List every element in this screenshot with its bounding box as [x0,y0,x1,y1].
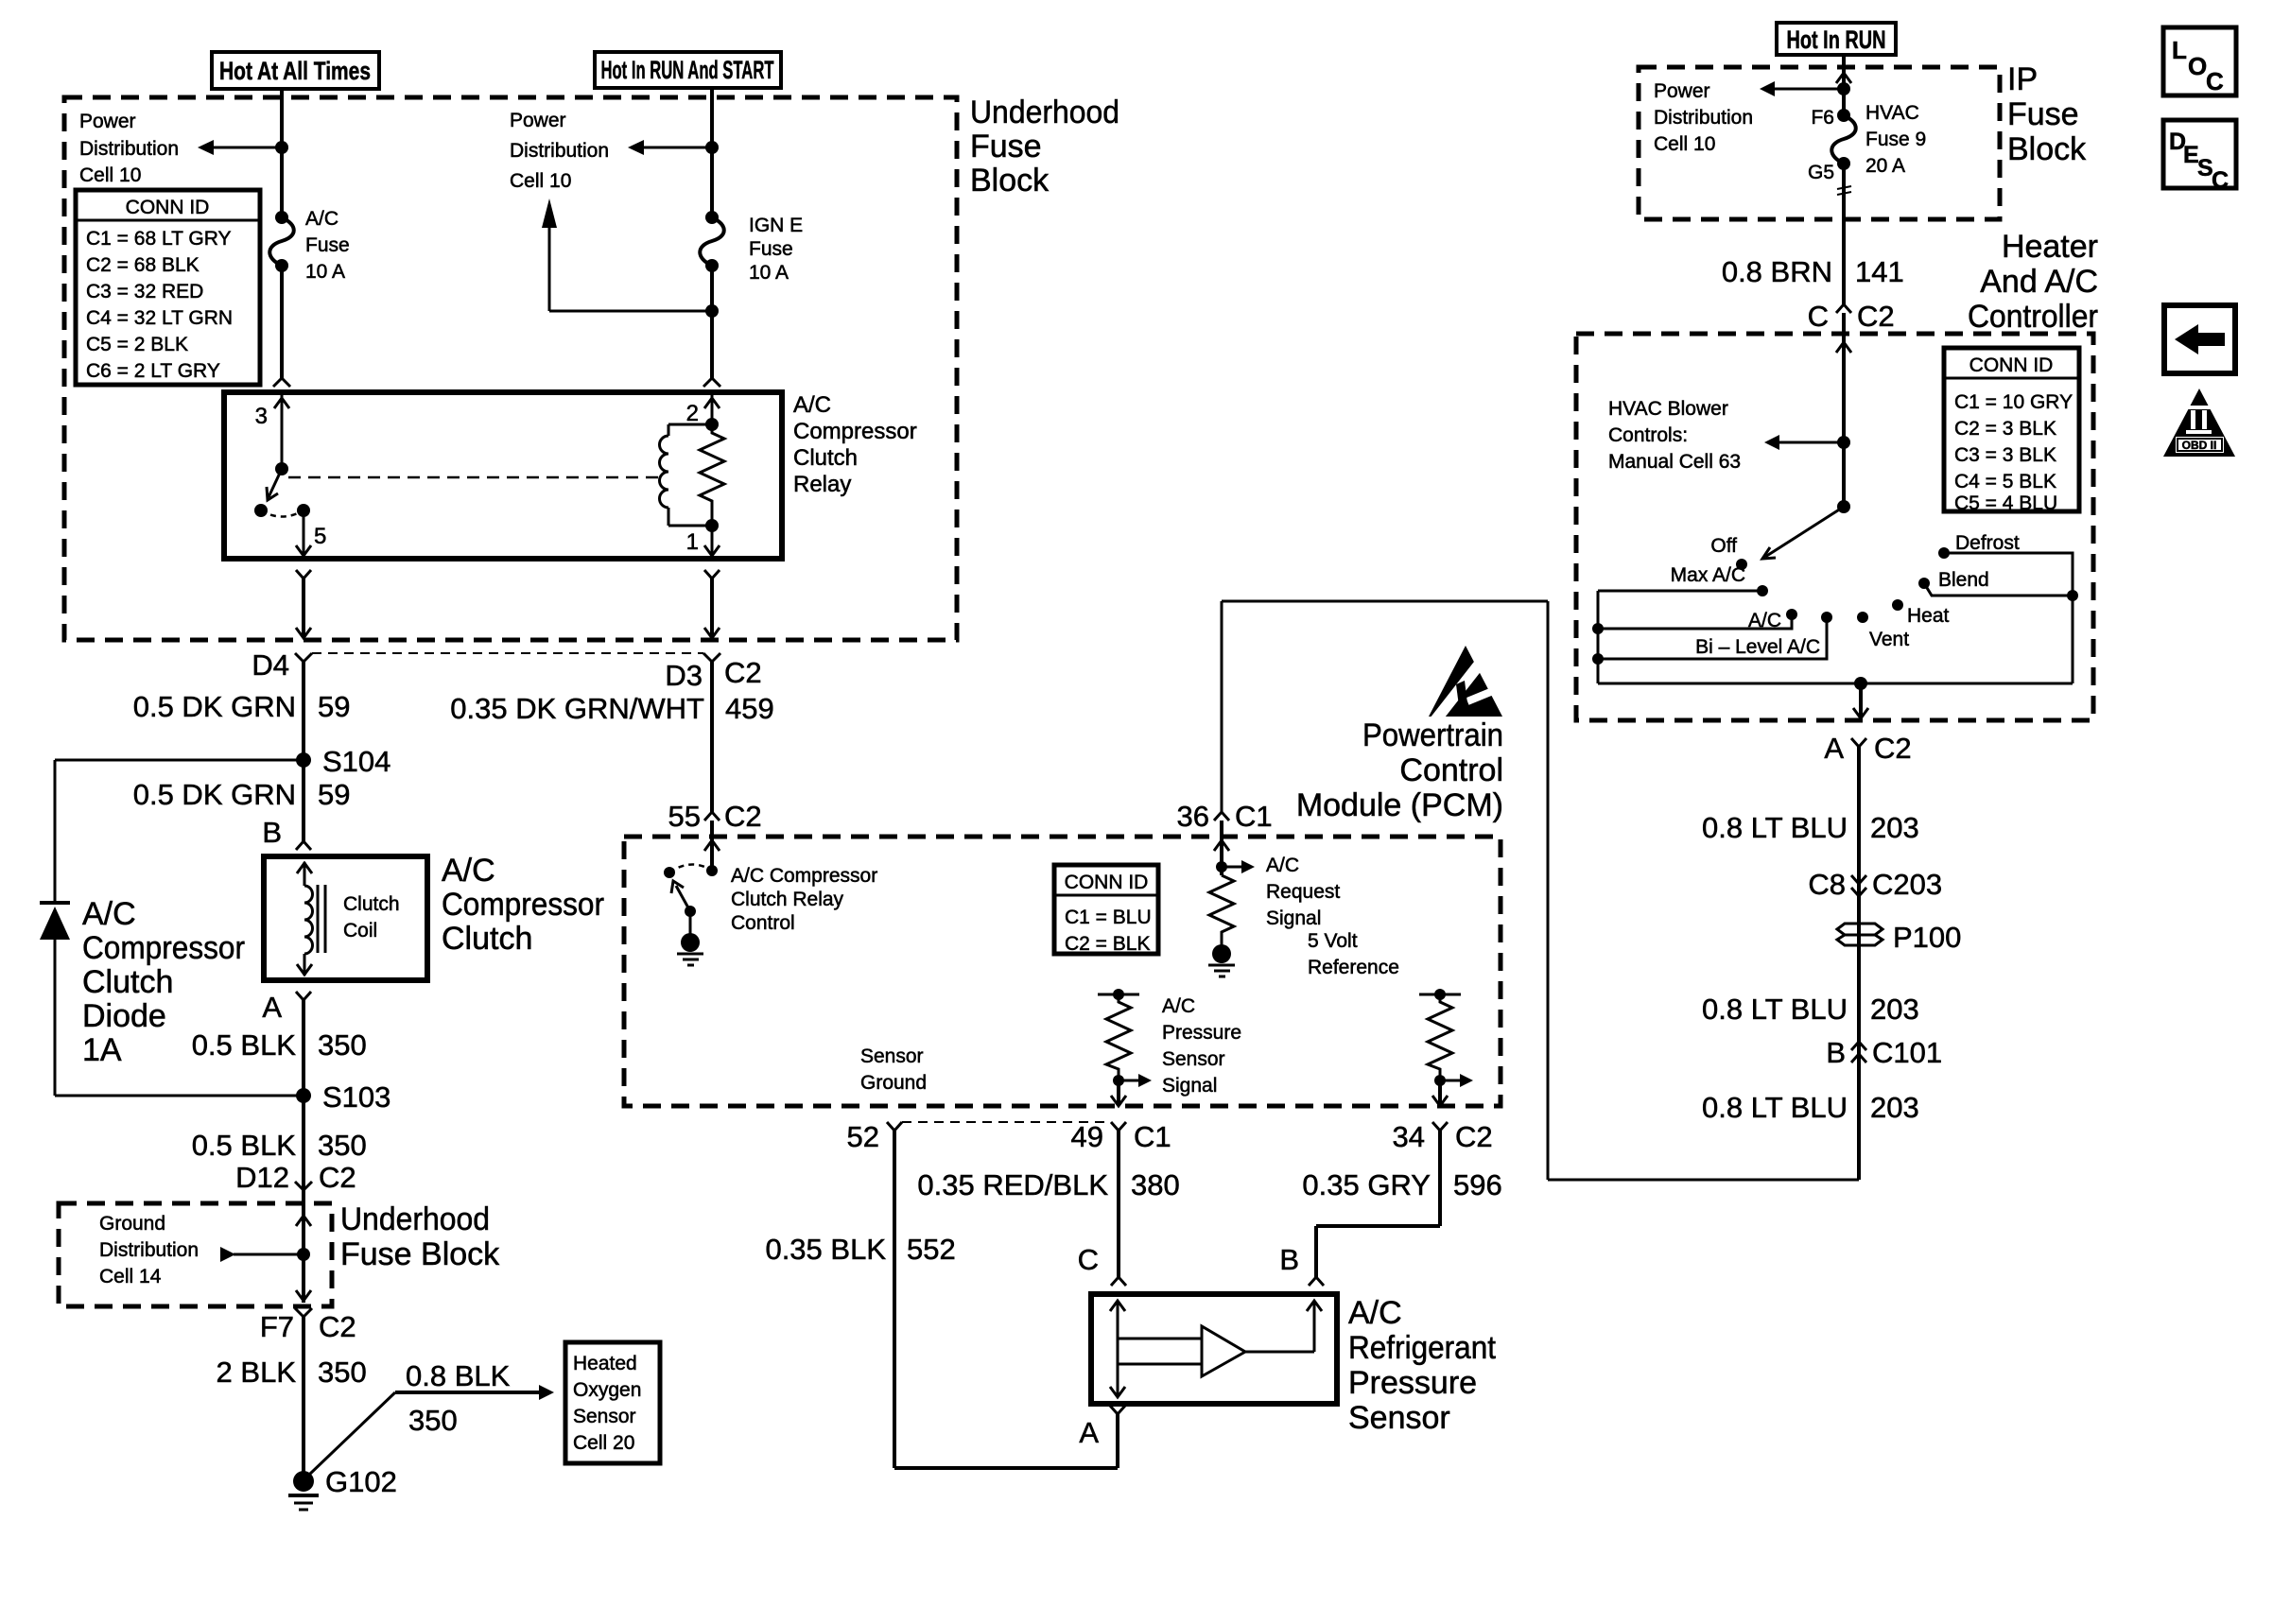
svg-text:A/C: A/C [305,208,338,230]
svg-text:Off: Off [1710,535,1737,557]
svg-text:Diode: Diode [82,998,166,1034]
connector C8 / C203 [1808,868,1942,901]
ESD symbol [1429,646,1509,724]
Underhood Fuse Block dashed box [64,97,957,640]
node junction on A/C fuse feed [275,141,288,154]
svg-text:B: B [1826,1036,1846,1069]
svg-text:OBD II: OBD II [2182,439,2217,452]
svg-text:A: A [262,991,282,1024]
svg-text:S103: S103 [322,1080,390,1114]
svg-text:Fuse Block: Fuse Block [340,1236,500,1272]
svg-text:A/C: A/C [1266,855,1299,876]
svg-text:10 A: 10 A [749,262,789,284]
svg-text:52: 52 [847,1120,879,1153]
wire label 0.35 BLK 552 [765,1233,955,1266]
svg-text:Defrost: Defrost [1955,532,2020,554]
ground G102 [288,1465,397,1510]
svg-text:Fuse: Fuse [749,238,793,260]
svg-text:Signal: Signal [1162,1075,1217,1097]
label Clutch Coil [343,893,400,942]
svg-text:C4 = 5 BLK: C4 = 5 BLK [1954,471,2056,492]
connector chevron below relay pin 5 [296,570,311,579]
connector F7 / C2 [260,1308,356,1343]
svg-text:C2: C2 [1455,1120,1493,1153]
svg-text:Max A/C: Max A/C [1671,564,1745,586]
node junction IGN E feed top [705,141,719,154]
connector C / C2 [1808,300,1895,333]
wire label 0.8 LT BLU 203 (1) [1702,811,1919,844]
Heater And A/C Controller dashed box [1576,334,2093,720]
svg-text:CONN ID: CONN ID [1065,872,1149,893]
svg-text:380: 380 [1131,1168,1180,1201]
label A/C Compressor Clutch [442,853,604,957]
svg-text:C2: C2 [724,800,762,833]
wire 55 into PCM [704,821,720,871]
wire label 0.35 GRY 596 [1302,1168,1501,1201]
svg-text:350: 350 [318,1129,367,1162]
svg-text:Compressor: Compressor [442,887,604,923]
svg-text:552: 552 [907,1233,956,1266]
svg-text:Signal: Signal [1266,907,1321,929]
connector D3 / C2 [665,653,761,692]
wire label 0.8 BRN 141 [1722,255,1904,288]
svg-text:Cell 20: Cell 20 [573,1432,634,1454]
svg-text:C2 = 68 BLK: C2 = 68 BLK [86,254,200,276]
grommet P100 [1837,921,1961,954]
label HVAC Blower Controls Manual Cell 63 [1608,398,1741,473]
svg-text:Vent: Vent [1869,629,1909,650]
DESC icon box [2163,120,2236,194]
svg-text:Ground: Ground [860,1072,927,1094]
svg-text:Block: Block [2007,131,2087,167]
svg-text:Controls:: Controls: [1608,424,1688,446]
wire G102 to heated oxygen sensor [309,1385,554,1475]
connector C [1078,1243,1126,1286]
svg-text:C8: C8 [1808,868,1846,901]
wire label 0.35 DK GRN/WHT 459 [450,692,773,725]
svg-text:C101: C101 [1872,1036,1942,1069]
svg-text:0.35 RED/BLK: 0.35 RED/BLK [917,1168,1108,1201]
svg-text:Sensor: Sensor [573,1406,636,1427]
svg-text:20 A: 20 A [1865,155,1905,177]
svg-text:F7: F7 [260,1310,294,1343]
svg-text:C1 = BLU: C1 = BLU [1065,907,1152,928]
svg-text:1A: 1A [82,1032,122,1068]
wire to mode switch wiper [1762,442,1850,559]
mode switch contact Heat [1892,599,1950,627]
svg-text:Hot In RUN: Hot In RUN [1787,26,1886,54]
svg-text:B: B [262,816,282,849]
connector B [1279,1243,1324,1286]
power feed box "Hot In RUN" [1777,23,1896,55]
relay pin 5 wire with down arrow [296,510,326,556]
wire C C2 into controller [1836,313,1851,442]
svg-text:5: 5 [314,524,326,549]
connector A / C2 [1824,732,1911,765]
svg-text:C2: C2 [319,1310,356,1343]
svg-text:0.5 BLK: 0.5 BLK [192,1129,297,1162]
svg-text:0.8 BRN: 0.8 BRN [1722,255,1832,288]
LOC icon box [2163,27,2236,95]
svg-text:Underhood: Underhood [340,1201,490,1237]
connector line C2 (thin dashed D4 to D3) [312,652,703,654]
svg-text:Clutch: Clutch [793,445,858,471]
svg-text:Heated: Heated [573,1353,637,1374]
fuse IGN E Fuse 10 A [700,211,724,272]
svg-text:C1: C1 [1134,1120,1171,1153]
IP Fuse Block dashed box [1639,67,2000,219]
svg-text:0.35 DK GRN/WHT: 0.35 DK GRN/WHT [450,692,704,725]
connector D12 / C2 [235,1161,356,1194]
svg-text:Oxygen: Oxygen [573,1379,641,1401]
svg-text:C1: C1 [1235,800,1273,833]
pressure sensor internals [1110,1301,1322,1397]
connector 49 / C1 [1071,1120,1171,1153]
svg-text:C2 = 3 BLK: C2 = 3 BLK [1954,418,2056,440]
ground (A/C request signal) [1208,944,1235,976]
CONN ID table (underhood) [76,190,260,385]
svg-text:C: C [1808,300,1829,333]
wire A C2 down to PCM request line [1857,747,1861,1180]
svg-text:Hot At All Times: Hot At All Times [219,57,371,85]
connector B / C101 [1826,1036,1942,1069]
label Powertrain Control Module (PCM) [1296,717,1503,823]
svg-text:And A/C: And A/C [1980,264,2098,300]
svg-text:Request: Request [1266,881,1340,903]
up arrow branch to Power Distribution cell [542,199,719,318]
wire S103 to D12 [302,1096,305,1190]
wire 52 sensor ground [894,1131,1118,1468]
connector 36 / C1 [1177,800,1273,833]
connector chevron above clutch box [296,841,311,850]
wire 36 C1 request path [1222,601,1859,1180]
svg-text:Control: Control [731,912,795,934]
svg-text:10 A: 10 A [305,261,345,283]
svg-text:Fuse: Fuse [2007,96,2079,132]
svg-text:IGN E: IGN E [749,215,803,236]
mode switch contact Blend [1918,569,2078,601]
svg-text:C1 = 10 GRY: C1 = 10 GRY [1954,391,2073,413]
wire fuse to relay pin 3 [280,266,284,378]
connector D4 [252,648,312,682]
relay box A/C Compressor Clutch Relay [224,392,782,559]
svg-text:Clutch: Clutch [343,893,400,915]
relay pin 3 wire with up arrow [255,395,289,469]
back arrow icon box [2164,305,2235,373]
svg-text:0.8 LT BLU: 0.8 LT BLU [1702,993,1848,1026]
arrow to Power Distribution (IP) [1760,81,1850,96]
svg-text:O: O [2188,52,2207,80]
svg-text:P100: P100 [1893,921,1961,954]
mode switch bus wiring [1598,591,2073,690]
arrow to Power Distribution (right) [628,140,712,155]
fuse A/C Fuse 10 A [269,211,294,272]
svg-text:Reference: Reference [1308,957,1399,978]
CONN ID table (controller) [1944,348,2079,514]
mode switch contact Bi-Level A/C [1592,612,1832,665]
wire label 0.35 RED/BLK 380 [917,1168,1179,1201]
svg-text:Fuse: Fuse [970,129,1042,164]
svg-text:Refrigerant: Refrigerant [1348,1330,1497,1366]
svg-text:Clutch: Clutch [442,921,532,957]
svg-text:Distribution: Distribution [1654,107,1753,129]
svg-text:Distribution: Distribution [99,1239,199,1261]
node S104 [296,745,390,778]
svg-text:Pressure: Pressure [1348,1365,1477,1401]
wire label 0.5 BLK 350 (second) [192,1129,367,1162]
svg-text:Clutch: Clutch [82,964,173,1000]
relay switch [254,462,310,517]
label Sensor Ground [860,1045,927,1094]
power feed box "Hot At All Times" [212,52,379,89]
svg-text:Clutch Relay: Clutch Relay [731,889,844,910]
CONN ID table (PCM) [1054,865,1158,955]
svg-text:55: 55 [668,800,701,833]
svg-text:0.8 BLK: 0.8 BLK [406,1359,511,1392]
wire G5 to C C2 with break mark [1837,164,1851,304]
connector chevron below relay pin 1 [704,570,720,579]
label A/C Fuse 10 A [305,208,350,283]
wire 34 to pressure sensor B [1316,1131,1440,1277]
label Power Distribution Cell 10 (IP) [1654,80,1753,155]
connector 52 [847,1120,902,1153]
svg-text:A: A [1824,732,1844,765]
svg-text:Module (PCM): Module (PCM) [1296,787,1503,823]
label 5 Volt Reference [1308,930,1399,978]
svg-text:0.35 BLK: 0.35 BLK [765,1233,886,1266]
svg-text:C: C [1078,1243,1099,1276]
svg-text:Compressor: Compressor [793,419,917,444]
wire label 0.8 LT BLU 203 (3) [1702,1091,1919,1124]
wire D3 to 55 [710,662,714,812]
svg-text:59: 59 [318,778,350,811]
label Ground Distribution Cell 14 [99,1213,199,1287]
label A/C Compressor Clutch Relay Control [731,865,877,934]
A/C Compressor Clutch box [264,856,427,980]
svg-text:Fuse 9: Fuse 9 [1865,129,1926,150]
svg-text:Relay: Relay [793,472,851,497]
svg-text:C4 = 32 LT GRN: C4 = 32 LT GRN [86,307,233,329]
wire from Hot In RUN And START box [710,88,714,98]
svg-text:Fuse: Fuse [305,234,350,256]
svg-text:5 Volt: 5 Volt [1308,930,1358,952]
svg-text:C6 = 2 LT GRY: C6 = 2 LT GRY [86,360,220,382]
PCM relay control switch [664,864,718,937]
relay pin 2 wire with up arrow [686,395,720,426]
svg-text:Cell 10: Cell 10 [1654,133,1715,155]
label HVAC Fuse 9 20 A [1865,102,1926,177]
svg-text:C203: C203 [1872,868,1942,901]
Ground Distribution dashed box (Underhood Fuse Block) [59,1203,332,1306]
svg-text:HVAC Blower: HVAC Blower [1608,398,1728,420]
svg-text:L: L [2172,36,2187,64]
svg-text:C2: C2 [319,1161,356,1194]
wire Hot In RUN into IP fuse block [1836,55,1851,115]
svg-text:G102: G102 [325,1465,397,1498]
ground (PCM relay control) [677,933,703,965]
svg-text:IP: IP [2007,61,2038,97]
svg-text:B: B [1279,1243,1299,1276]
svg-text:C1 = 68 LT GRY: C1 = 68 LT GRY [86,228,232,250]
arrow to Power Distribution (left) [198,140,282,155]
svg-text:203: 203 [1870,1091,1919,1124]
svg-text:A/C: A/C [82,896,136,932]
svg-text:0.5 DK GRN: 0.5 DK GRN [133,690,296,723]
A/C pressure sensor signal resistor [1098,989,1152,1106]
svg-text:0.8 LT BLU: 0.8 LT BLU [1702,1091,1848,1124]
svg-text:A/C: A/C [442,853,495,889]
svg-text:C2: C2 [1857,300,1895,333]
svg-text:36: 36 [1177,800,1209,833]
Heated Oxygen Sensor Cell 20 box [565,1342,660,1463]
svg-text:Bi – Level A/C: Bi – Level A/C [1695,636,1820,658]
svg-text:D12: D12 [235,1161,289,1194]
relay resistor [700,424,724,526]
wire D12 through ground distribution box [296,1190,311,1303]
svg-text:1: 1 [686,529,699,555]
svg-text:Distribution: Distribution [510,140,609,162]
controller output wire [1853,683,1868,720]
svg-text:203: 203 [1870,993,1919,1026]
svg-text:Hot In RUN And START: Hot In RUN And START [601,56,774,84]
svg-text:C3 = 3 BLK: C3 = 3 BLK [1954,444,2056,466]
svg-text:Distribution: Distribution [79,138,179,160]
svg-text:A: A [1079,1416,1099,1449]
wire from Hot At All Times box [280,89,284,98]
svg-text:Power: Power [1654,80,1710,102]
relay pin 1 wire with down arrow [686,519,720,556]
svg-text:Ground: Ground [99,1213,165,1235]
mode switch contact Off [1710,535,1747,570]
label A/C Pressure Sensor Signal [1162,995,1241,1097]
svg-text:350: 350 [318,1356,367,1389]
svg-text:459: 459 [725,692,774,725]
A/C request signal resistor [1209,821,1255,947]
svg-text:Power: Power [79,111,136,132]
svg-text:3: 3 [255,404,268,429]
svg-text:0.8 LT BLU: 0.8 LT BLU [1702,811,1848,844]
svg-text:203: 203 [1870,811,1919,844]
svg-text:Pressure: Pressure [1162,1022,1241,1044]
connector 55 / C2 [668,800,762,833]
fuse HVAC Fuse 9 20 A [1808,107,1856,183]
wire IGN E feed [710,98,714,217]
pressure sensor box [1091,1294,1337,1404]
svg-text:2: 2 [686,401,699,426]
wire label 0.8 BLK 350 [406,1359,511,1437]
label Underhood Fuse Block (bottom) [340,1201,500,1272]
wire relay pin 5 to D4 [296,579,311,638]
diode A/C Compressor Clutch Diode [40,903,304,1096]
svg-text:D3: D3 [665,659,703,692]
wire label 0.8 LT BLU 203 (2) [1702,993,1919,1026]
label Power Distribution Cell 10 (left) [79,111,179,186]
wire relay pin 1 to D3 [704,579,720,638]
wire clutch to S103 [302,1000,305,1096]
svg-text:HVAC: HVAC [1865,102,1919,124]
OBD II icon [2163,389,2235,457]
mode switch contact A/C [1592,609,1797,634]
svg-text:Cell 10: Cell 10 [510,170,571,192]
svg-text:CONN ID: CONN ID [1969,354,2054,376]
label IGN E Fuse 10 A [749,215,803,284]
wire S104 to diode (top leg) [55,760,304,903]
svg-text:Heater: Heater [2002,229,2098,265]
svg-text:A/C: A/C [793,392,831,418]
connector 34 / C2 [1393,1120,1493,1153]
wire A/C feed [280,98,284,217]
svg-text:2 BLK: 2 BLK [217,1356,297,1389]
svg-text:596: 596 [1453,1168,1502,1201]
svg-text:A/C Compressor: A/C Compressor [731,865,877,887]
label A/C Compressor Clutch Diode 1A [82,896,245,1068]
svg-text:34: 34 [1393,1120,1425,1153]
relay coil [660,418,720,526]
svg-text:Block: Block [970,163,1050,199]
arrow to HVAC Blower Controls [1764,435,1850,450]
wire label 0.5 DK GRN 59 (second) [133,778,351,811]
svg-text:F6: F6 [1811,107,1834,129]
wire S104 to clutch [302,760,305,841]
svg-text:49: 49 [1071,1120,1103,1153]
svg-text:Manual Cell 63: Manual Cell 63 [1608,451,1741,473]
connector chevron above relay pin 2 [703,378,720,387]
svg-text:0.5 DK GRN: 0.5 DK GRN [133,778,296,811]
svg-text:0.35 GRY: 0.35 GRY [1302,1168,1431,1201]
svg-text:S104: S104 [322,745,390,778]
svg-text:350: 350 [318,1028,367,1062]
wire label 2 BLK 350 [217,1356,367,1389]
svg-text:Blend: Blend [1938,569,1989,591]
label IP Fuse Block [2007,61,2087,167]
connector line C1 (thin dashed 52 to 49) [902,1121,1111,1123]
node S103 [296,1080,390,1114]
svg-text:C: C [2212,167,2229,194]
svg-text:Heat: Heat [1907,605,1950,627]
svg-text:141: 141 [1855,255,1904,288]
svg-text:Sensor: Sensor [1348,1400,1450,1436]
svg-text:C2: C2 [724,656,762,689]
mode switch contact Vent [1857,612,1909,650]
label Heater And A/C Controller [1968,229,2098,335]
svg-text:A/C: A/C [1348,1295,1402,1331]
svg-text:0.5 BLK: 0.5 BLK [192,1028,297,1062]
svg-text:Controller: Controller [1968,299,2098,335]
svg-text:C5 = 2 BLK: C5 = 2 BLK [86,334,188,355]
connector chevron above relay pin 3 [273,378,290,387]
mode switch contact Max A/C [1598,564,1768,596]
svg-text:C2 = BLK: C2 = BLK [1065,933,1150,955]
connector A [1079,1406,1125,1468]
svg-text:A/C: A/C [1162,995,1195,1017]
wire F7 to G102 [302,1317,305,1477]
wire label 0.5 DK GRN 59 [133,690,351,723]
svg-text:D4: D4 [252,648,289,682]
wire label 0.5 BLK 350 [192,1028,367,1062]
svg-text:Coil: Coil [343,920,377,942]
5 volt reference resistor [1419,989,1473,1106]
svg-text:C: C [2206,67,2224,95]
label A/C Compressor Clutch Relay [793,392,917,497]
PCM dashed box [624,837,1501,1106]
svg-text:59: 59 [318,690,350,723]
relay internal dashed link [288,476,662,479]
label A/C Refrigerant Pressure Sensor [1348,1295,1497,1436]
svg-text:Control: Control [1399,752,1503,788]
wire 49 to pressure sensor C [1117,1131,1120,1277]
svg-text:C3 = 32 RED: C3 = 32 RED [86,281,203,302]
svg-text:C2: C2 [1874,732,1912,765]
